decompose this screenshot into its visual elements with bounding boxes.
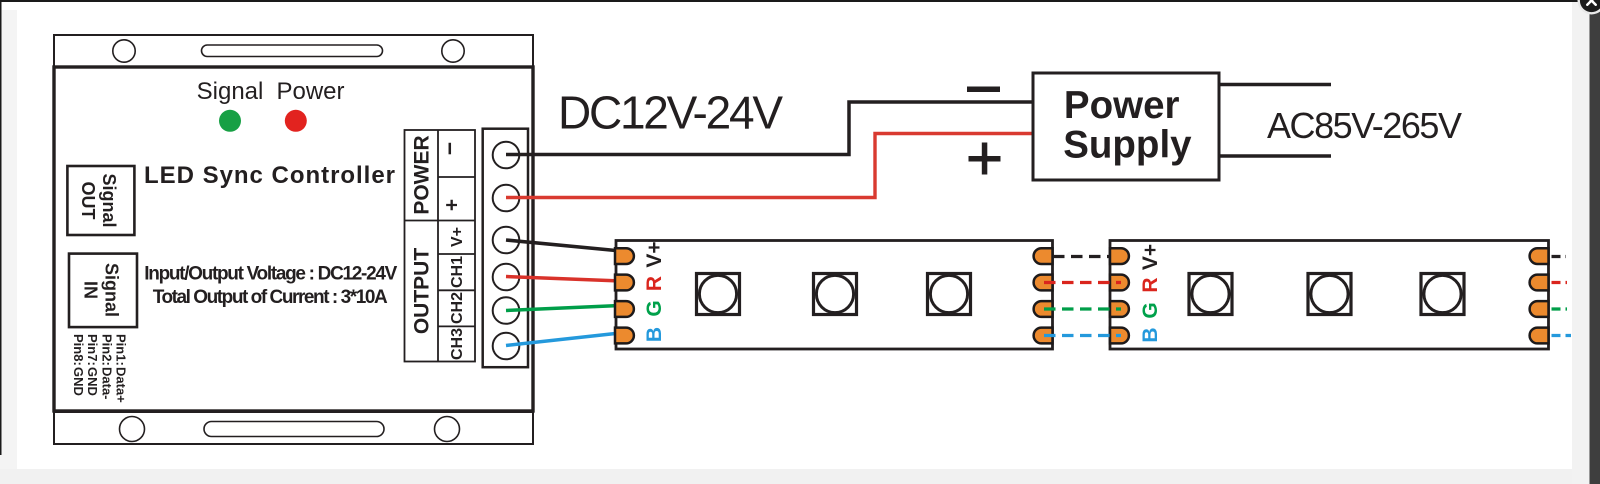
svg-text:R: R [1139,277,1162,292]
svg-text:OUTPUT: OUTPUT [411,248,434,335]
svg-text:Pin1:Data+Pin2:Data-Pin7:GNDPi: Pin1:Data+Pin2:Data-Pin7:GNDPin8:GND [71,334,129,403]
svg-text:CH2: CH2 [449,292,466,324]
svg-text:Power: Power [276,78,344,105]
svg-text:G: G [643,300,666,316]
svg-text:B: B [643,327,666,342]
svg-text:CH3: CH3 [449,328,466,360]
svg-text:V+: V+ [643,241,666,267]
svg-text:R: R [643,276,666,291]
svg-text:V+: V+ [1139,244,1162,270]
svg-text:CH1: CH1 [449,256,466,288]
svg-text:SignalOUT: SignalOUT [78,174,119,228]
svg-text:Input/Output Voltage : DC12-24: Input/Output Voltage : DC12-24V [144,264,397,285]
svg-text:−: − [437,142,463,155]
svg-text:Supply: Supply [1063,124,1192,167]
svg-text:AC85V-265V: AC85V-265V [1267,105,1462,146]
svg-text:Total Output of Current : 3*10: Total Output of Current : 3*10A [153,287,388,308]
svg-text:DC12V-24V: DC12V-24V [558,87,783,139]
svg-text:G: G [1139,302,1162,318]
svg-text:Power: Power [1064,84,1180,127]
svg-text:LED Sync Controller: LED Sync Controller [144,162,395,189]
svg-text:+: + [441,199,464,211]
svg-text:B: B [1139,327,1162,342]
svg-text:POWER: POWER [411,135,434,214]
svg-text:Signal: Signal [197,78,264,105]
svg-text:V+: V+ [449,227,466,247]
